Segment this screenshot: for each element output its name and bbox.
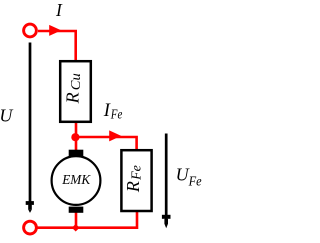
- svg-text:I: I: [55, 0, 63, 20]
- svg-text:U: U: [176, 165, 190, 185]
- svg-text:Cu: Cu: [69, 73, 84, 90]
- svg-text:Fe: Fe: [188, 175, 202, 190]
- svg-text:R: R: [62, 92, 82, 104]
- svg-text:Fe: Fe: [110, 108, 122, 123]
- svg-text:Fe: Fe: [130, 165, 145, 181]
- svg-text:R: R: [123, 181, 143, 193]
- svg-text:I: I: [103, 101, 111, 121]
- svg-text:U: U: [0, 106, 13, 126]
- svg-text:EMK: EMK: [61, 173, 91, 188]
